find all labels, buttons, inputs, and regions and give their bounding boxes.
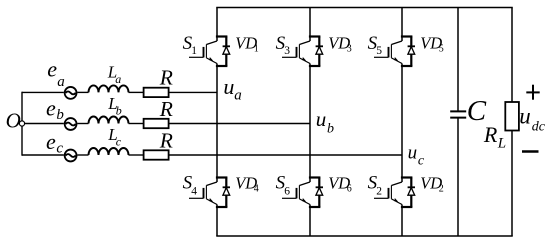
wire: bus to source e_b <box>22 123 64 125</box>
svg-text:u: u <box>316 107 327 131</box>
wire: top DC rail <box>217 7 512 9</box>
label L_b <box>107 94 122 118</box>
svg-text:a: a <box>57 74 64 90</box>
svg-text:L: L <box>497 136 506 152</box>
svg-text:b: b <box>56 107 64 123</box>
inductor L_b <box>89 117 129 124</box>
wire: bus to source e_c <box>22 154 64 156</box>
label e_c <box>46 129 63 157</box>
svg-text:5: 5 <box>376 45 382 57</box>
svg-text:R: R <box>483 122 498 147</box>
wire: diode branch vertical (VD) <box>225 37 227 67</box>
resistor R (a) <box>144 88 169 97</box>
label + (positive DC terminal) <box>526 85 539 100</box>
inductor L_a <box>89 85 129 92</box>
svg-text:e: e <box>46 129 56 154</box>
svg-text:c: c <box>56 141 63 157</box>
wire: leg 2 middle vertical <box>309 64 311 183</box>
wire: leg 2 lower vertical <box>309 205 311 237</box>
IGBT S5 <box>374 41 402 64</box>
svg-text:6: 6 <box>347 184 352 195</box>
diode VD6 <box>316 187 323 195</box>
svg-text:dc: dc <box>532 119 546 134</box>
svg-text:e: e <box>47 57 57 82</box>
wire: diode branch bottom (bottom of VD) <box>402 206 411 208</box>
IGBT S6 <box>282 182 310 205</box>
label VD6 <box>328 173 352 194</box>
diode VD1 <box>223 46 230 54</box>
wire: diode branch bottom (bottom of VD) <box>217 206 226 208</box>
node O terminal <box>19 121 24 126</box>
wire: bottom DC rail <box>217 235 512 237</box>
wire: corner junction to diode branch (top of VD) <box>310 176 319 178</box>
IGBT S3 <box>282 41 310 64</box>
svg-text:2: 2 <box>376 185 382 197</box>
wire: diode branch bottom (bottom of VD) <box>310 65 319 67</box>
wire: corner junction to diode branch (top of VD) <box>217 35 226 37</box>
label VD3 <box>328 33 352 54</box>
resistor R_L <box>505 102 519 131</box>
label VD1 <box>235 33 259 54</box>
AC source e_a <box>65 87 77 99</box>
svg-text:R: R <box>159 97 173 121</box>
svg-text:R: R <box>159 66 173 90</box>
svg-text:5: 5 <box>439 44 444 55</box>
svg-text:b: b <box>327 121 334 136</box>
label VD2 <box>420 173 444 194</box>
svg-text:6: 6 <box>284 185 290 197</box>
wire: inductor to resistor R (b) <box>129 123 144 125</box>
label VD5 <box>420 33 444 54</box>
wire: leg 1 middle vertical <box>216 64 218 183</box>
wire: source to inductor L_c <box>77 154 88 156</box>
wire: inductor to resistor R (c) <box>129 154 144 156</box>
label S4 <box>183 173 198 198</box>
label node u_c <box>408 142 425 168</box>
label S5 <box>368 33 383 57</box>
svg-text:1: 1 <box>191 45 197 57</box>
svg-text:2: 2 <box>439 184 444 195</box>
svg-text:u: u <box>408 142 418 163</box>
svg-text:O: O <box>6 108 21 132</box>
wire: diode branch vertical (VD) <box>225 178 227 208</box>
wire: source to inductor L_b <box>77 123 88 125</box>
wire: leg 2 upper vertical <box>309 8 311 42</box>
resistor R (c) <box>144 150 169 159</box>
label e_a <box>47 57 64 91</box>
diode VD3 <box>316 46 323 54</box>
label S1 <box>183 33 198 57</box>
wire: corner junction to diode branch (top of VD) <box>402 176 411 178</box>
label VD4 <box>235 173 259 194</box>
wire: corner junction to diode branch (top of VD) <box>402 35 411 37</box>
wire: resistor to bridge leg (a) <box>169 91 217 93</box>
svg-text:u: u <box>223 74 234 99</box>
svg-text:c: c <box>418 153 425 168</box>
wire: leg 1 upper vertical <box>216 8 218 42</box>
diode VD2 <box>408 187 415 195</box>
wire: capacitor branch upper <box>457 8 459 112</box>
AC source e_b <box>65 118 77 130</box>
capacitor C <box>450 111 466 117</box>
node O bus wire <box>21 92 23 155</box>
wire: bus to source e_a <box>22 91 64 93</box>
svg-text:4: 4 <box>254 184 259 195</box>
wire: leg 3 lower vertical <box>401 205 403 237</box>
wire: load branch lower <box>511 131 513 237</box>
label S6 <box>276 173 291 198</box>
svg-text:e: e <box>46 96 56 121</box>
wire: diode branch vertical (VD) <box>318 37 320 67</box>
label - (negative DC terminal) <box>522 150 539 153</box>
label node u_a <box>223 74 241 104</box>
svg-text:c: c <box>116 135 122 149</box>
label node u_b <box>316 107 334 136</box>
svg-text:1: 1 <box>254 44 259 55</box>
wire: corner junction to diode branch (top of VD) <box>217 176 226 178</box>
svg-text:a: a <box>234 88 242 104</box>
svg-text:3: 3 <box>347 44 352 55</box>
label R_L <box>483 122 506 152</box>
IGBT S4 <box>189 182 217 205</box>
wire: diode branch bottom (bottom of VD) <box>217 65 226 67</box>
wire: source to inductor L_a <box>77 91 88 93</box>
svg-text:b: b <box>116 103 122 117</box>
wire: corner junction to diode branch (top of VD) <box>310 35 319 37</box>
diode VD5 <box>408 46 415 54</box>
wire: leg 3 upper vertical <box>401 8 403 42</box>
inductor L_c <box>89 148 129 155</box>
IGBT S2 <box>374 182 402 205</box>
wire: diode branch bottom (bottom of VD) <box>310 206 319 208</box>
label L_c <box>107 125 122 149</box>
svg-text:a: a <box>115 72 121 86</box>
svg-text:u: u <box>519 103 531 128</box>
label S2 <box>368 173 383 198</box>
IGBT S1 <box>189 41 217 64</box>
wire: diode branch vertical (VD) <box>410 178 412 208</box>
wire: resistor to bridge leg (c) <box>169 154 402 156</box>
wire: inductor to resistor R (a) <box>129 91 144 93</box>
AC source e_c <box>65 150 77 162</box>
wire: diode branch bottom (bottom of VD) <box>402 65 411 67</box>
svg-text:3: 3 <box>284 45 290 57</box>
label L_a <box>107 62 122 86</box>
label S3 <box>276 33 291 57</box>
wire: leg 3 middle vertical <box>401 64 403 183</box>
resistor R (b) <box>144 119 169 128</box>
wire: diode branch vertical (VD) <box>410 37 412 67</box>
wire: load branch upper <box>511 8 513 103</box>
label u_dc <box>519 103 545 134</box>
diode VD4 <box>223 187 230 195</box>
wire: diode branch vertical (VD) <box>318 178 320 208</box>
svg-text:4: 4 <box>191 185 197 197</box>
wire: capacitor branch lower <box>457 118 459 236</box>
wire: resistor to bridge leg (b) <box>169 123 310 125</box>
wire: leg 1 lower vertical <box>216 205 218 237</box>
label e_b <box>46 96 64 124</box>
svg-text:R: R <box>159 128 173 152</box>
